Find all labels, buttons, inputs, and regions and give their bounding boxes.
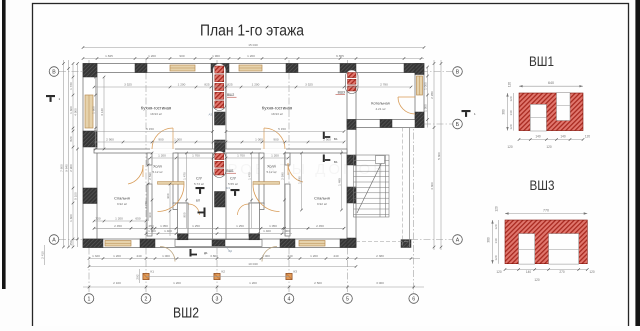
svg-text:Спальня: Спальня xyxy=(314,196,330,201)
svg-text:2 100: 2 100 xyxy=(113,281,121,285)
svg-text:1 720: 1 720 xyxy=(69,82,73,90)
svg-text:1 790: 1 790 xyxy=(298,176,302,184)
svg-text:120: 120 xyxy=(494,255,498,260)
svg-text:ВШ1: ВШ1 xyxy=(529,54,554,69)
svg-text:План 1-го этажа: План 1-го этажа xyxy=(200,23,304,40)
svg-text:1 000: 1 000 xyxy=(255,138,263,142)
svg-text:2 590: 2 590 xyxy=(148,172,152,180)
svg-text:9.92 м²: 9.92 м² xyxy=(117,202,127,206)
svg-text:120: 120 xyxy=(508,82,512,88)
svg-text:А: А xyxy=(52,237,56,243)
svg-text:2 380: 2 380 xyxy=(376,254,384,258)
svg-text:1 600: 1 600 xyxy=(92,106,96,114)
svg-text:7 600: 7 600 xyxy=(60,164,64,172)
svg-text:2 410: 2 410 xyxy=(41,251,45,259)
svg-text:1 400: 1 400 xyxy=(263,229,271,233)
svg-text:1 200: 1 200 xyxy=(252,83,260,87)
svg-text:6 865: 6 865 xyxy=(336,54,344,58)
svg-text:640: 640 xyxy=(548,81,554,85)
svg-text:Кухня-гостиная: Кухня-гостиная xyxy=(262,106,293,111)
svg-text:1 200: 1 200 xyxy=(148,54,156,58)
svg-text:140: 140 xyxy=(535,135,541,139)
svg-text:В: В xyxy=(52,69,56,75)
svg-text:120: 120 xyxy=(509,96,513,101)
svg-text:700: 700 xyxy=(95,217,100,221)
svg-text:3 000: 3 000 xyxy=(376,281,384,285)
svg-text:ВШ3: ВШ3 xyxy=(530,178,555,193)
svg-text:2 450: 2 450 xyxy=(316,224,324,228)
svg-text:2 280: 2 280 xyxy=(430,91,434,99)
svg-text:18.93 м²: 18.93 м² xyxy=(150,112,162,116)
svg-text:2 900: 2 900 xyxy=(323,138,331,142)
svg-text:900: 900 xyxy=(166,193,170,198)
svg-text:120: 120 xyxy=(494,224,498,229)
svg-text:1 000: 1 000 xyxy=(282,229,290,233)
svg-text:ПРОЕКТЫ ДОМОВ: ПРОЕКТЫ ДОМОВ xyxy=(214,161,386,178)
svg-text:С/У: С/У xyxy=(196,177,203,181)
svg-text:1 600: 1 600 xyxy=(69,106,73,114)
svg-text:1 485: 1 485 xyxy=(338,178,342,186)
svg-text:825: 825 xyxy=(227,83,232,87)
svg-text:БП: БП xyxy=(196,199,200,203)
svg-text:120: 120 xyxy=(509,124,513,129)
svg-text:2 270: 2 270 xyxy=(144,201,148,209)
svg-text:9 840: 9 840 xyxy=(65,164,69,172)
svg-text:140: 140 xyxy=(560,135,566,139)
svg-text:2: 2 xyxy=(145,296,148,302)
svg-text:2 590: 2 590 xyxy=(281,172,285,180)
svg-text:900: 900 xyxy=(273,138,278,142)
svg-text:900: 900 xyxy=(148,212,152,217)
svg-text:К3: К3 xyxy=(294,270,298,274)
svg-text:900: 900 xyxy=(179,54,184,58)
svg-text:А3: А3 xyxy=(209,113,213,117)
svg-text:3 140: 3 140 xyxy=(100,108,104,116)
svg-text:1 700: 1 700 xyxy=(192,154,200,158)
svg-text:3 800: 3 800 xyxy=(210,254,218,258)
svg-text:1 200: 1 200 xyxy=(178,83,186,87)
svg-text:1 250: 1 250 xyxy=(192,224,200,228)
svg-text:1 050: 1 050 xyxy=(269,224,277,228)
svg-text:380: 380 xyxy=(486,237,490,243)
svg-text:1 200: 1 200 xyxy=(249,281,257,285)
svg-text:2 450: 2 450 xyxy=(114,224,122,228)
svg-text:4 300: 4 300 xyxy=(430,182,434,190)
svg-text:440: 440 xyxy=(287,254,292,258)
svg-text:292: 292 xyxy=(136,274,140,279)
svg-text:5.12 м²: 5.12 м² xyxy=(152,170,162,174)
svg-text:ВШЗ: ВШЗ xyxy=(338,91,345,95)
svg-text:140: 140 xyxy=(526,270,532,274)
svg-text:5 100: 5 100 xyxy=(74,192,78,200)
svg-text:900: 900 xyxy=(158,138,163,142)
svg-text:Кухня-гостиная: Кухня-гостиная xyxy=(141,106,172,111)
svg-text:900: 900 xyxy=(183,212,187,217)
svg-text:Холл: Холл xyxy=(153,165,162,169)
svg-text:1 400: 1 400 xyxy=(164,229,172,233)
svg-text:Д1: Д1 xyxy=(204,251,208,255)
svg-text:3: 3 xyxy=(216,296,219,302)
svg-text:1 200: 1 200 xyxy=(173,281,181,285)
svg-text:1 000: 1 000 xyxy=(424,82,428,90)
svg-text:1 470: 1 470 xyxy=(248,172,252,180)
svg-text:1 320: 1 320 xyxy=(92,254,100,258)
svg-text:1 200: 1 200 xyxy=(113,254,121,258)
svg-text:1 250: 1 250 xyxy=(236,224,244,228)
svg-text:1 000: 1 000 xyxy=(162,254,170,258)
svg-text:1 300: 1 300 xyxy=(424,104,428,112)
svg-text:1 960: 1 960 xyxy=(212,54,220,58)
svg-text:К3: К3 xyxy=(229,249,233,253)
svg-text:3 525: 3 525 xyxy=(124,83,132,87)
svg-text:5: 5 xyxy=(346,296,349,302)
svg-text:К3: К3 xyxy=(227,186,231,190)
svg-text:5.73 м²: 5.73 м² xyxy=(194,182,204,186)
svg-text:120: 120 xyxy=(495,206,499,212)
svg-text:1 050: 1 050 xyxy=(160,224,168,228)
svg-text:Б1: Б1 xyxy=(334,160,338,164)
svg-text:1: 1 xyxy=(88,296,91,302)
svg-text:120: 120 xyxy=(507,145,513,149)
svg-text:К1: К1 xyxy=(151,270,155,274)
svg-text:5.55 м²: 5.55 м² xyxy=(228,182,238,186)
svg-text:ВШ1: ВШ1 xyxy=(227,169,234,173)
svg-text:4 900: 4 900 xyxy=(74,108,78,116)
svg-text:10 040: 10 040 xyxy=(248,262,258,266)
svg-text:5 150: 5 150 xyxy=(278,127,286,131)
svg-text:1 200: 1 200 xyxy=(271,154,279,158)
svg-text:5 300: 5 300 xyxy=(437,152,441,160)
svg-text:15 040: 15 040 xyxy=(248,43,258,47)
svg-text:ВШ2: ВШ2 xyxy=(173,306,199,322)
svg-text:5.12 м²: 5.12 м² xyxy=(266,170,276,174)
svg-text:770: 770 xyxy=(543,208,549,212)
svg-text:2 900: 2 900 xyxy=(106,138,114,142)
svg-text:1 200: 1 200 xyxy=(310,254,318,258)
svg-text:120: 120 xyxy=(546,145,552,149)
svg-text:Холл: Холл xyxy=(267,165,276,169)
svg-text:1 600: 1 600 xyxy=(69,214,73,222)
svg-text:1 700: 1 700 xyxy=(237,154,245,158)
svg-text:3 525: 3 525 xyxy=(305,83,313,87)
svg-text:440: 440 xyxy=(136,254,141,258)
svg-text:4: 4 xyxy=(288,296,291,302)
svg-text:440: 440 xyxy=(333,254,338,258)
svg-text:820: 820 xyxy=(69,136,73,141)
svg-text:825: 825 xyxy=(204,83,209,87)
svg-text:ВШ2: ВШ2 xyxy=(227,93,234,97)
svg-text:1 200: 1 200 xyxy=(115,217,123,221)
svg-text:4.21 м²: 4.21 м² xyxy=(375,107,385,111)
svg-text:2 500: 2 500 xyxy=(314,281,322,285)
svg-text:6: 6 xyxy=(412,296,415,302)
svg-text:1 000: 1 000 xyxy=(174,138,182,142)
svg-text:5 150: 5 150 xyxy=(146,127,154,131)
svg-text:К2: К2 xyxy=(222,270,226,274)
svg-text:270: 270 xyxy=(559,270,565,274)
svg-text:1 200: 1 200 xyxy=(158,154,166,158)
svg-text:140: 140 xyxy=(494,238,498,243)
svg-text:В: В xyxy=(456,69,460,75)
svg-text:650: 650 xyxy=(135,217,140,221)
svg-text:120: 120 xyxy=(589,270,595,274)
svg-text:120: 120 xyxy=(585,135,591,139)
svg-text:2 780: 2 780 xyxy=(380,83,388,87)
svg-text:1 200: 1 200 xyxy=(247,54,255,58)
svg-text:18.93 м²: 18.93 м² xyxy=(271,112,283,116)
svg-text:120: 120 xyxy=(496,270,502,274)
svg-text:1 470: 1 470 xyxy=(183,172,187,180)
svg-text:1 000: 1 000 xyxy=(262,254,270,258)
svg-text:380: 380 xyxy=(501,109,505,115)
svg-text:С/У: С/У xyxy=(230,177,237,181)
svg-text:120: 120 xyxy=(534,278,540,282)
svg-text:9.92 м²: 9.92 м² xyxy=(317,202,327,206)
svg-text:Спальня: Спальня xyxy=(114,196,130,201)
svg-text:2 900: 2 900 xyxy=(69,164,73,172)
svg-text:140: 140 xyxy=(509,110,513,115)
svg-text:1 000: 1 000 xyxy=(148,229,156,233)
svg-text:А: А xyxy=(456,237,460,243)
svg-text:1 845: 1 845 xyxy=(105,54,113,58)
svg-text:Котельная: Котельная xyxy=(371,102,389,106)
svg-text:450: 450 xyxy=(69,240,73,245)
svg-text:Б1: Б1 xyxy=(334,137,338,141)
svg-text:Б: Б xyxy=(456,122,460,128)
